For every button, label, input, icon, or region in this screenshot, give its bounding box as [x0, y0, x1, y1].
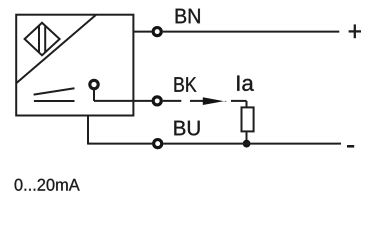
- terminal circle BU: [154, 140, 162, 148]
- wire: drop into resistor top: [246, 101, 248, 108]
- wire BU horizontal to terminal: [87, 143, 152, 145]
- terminal -: [347, 145, 354, 148]
- wire: stem from output circle: [93, 89, 95, 101]
- wire BK segment 1: [163, 100, 182, 102]
- analog output ramp symbol (sloped line): [34, 88, 75, 94]
- label 0...20mA: [15, 179, 80, 191]
- terminal circle BK: [153, 97, 161, 105]
- diamond inner line right: [44, 26, 46, 52]
- box diagonal divider: [16, 15, 96, 83]
- junction dot: [243, 140, 251, 148]
- wire BN to plus: [163, 31, 340, 33]
- terminal +: [349, 30, 361, 32]
- terminal circle BN: [153, 28, 161, 36]
- wire BU to minus: [163, 143, 341, 145]
- label Ia: [237, 76, 253, 91]
- output terminal circle inside box: [90, 80, 98, 88]
- load resistor: [242, 107, 254, 131]
- label BK: [174, 77, 196, 91]
- sensor box outline: [16, 15, 133, 116]
- label BU: [174, 121, 199, 136]
- proximity sensor diamond symbol: [25, 23, 60, 56]
- wire: BU drop from box bottom: [87, 116, 89, 144]
- wire BK segment 3 to resistor: [231, 100, 247, 102]
- wire: output run to BK terminal: [94, 100, 152, 102]
- wire: resistor bottom stem: [246, 131, 248, 143]
- wire BN from box edge: [133, 31, 151, 33]
- current direction arrow Ia: [203, 97, 227, 105]
- wire BK segment 2 (arrow tail): [190, 100, 203, 102]
- label BN: [176, 9, 200, 23]
- analog output ramp symbol (base line): [34, 100, 75, 102]
- diamond inner line left: [38, 26, 40, 53]
